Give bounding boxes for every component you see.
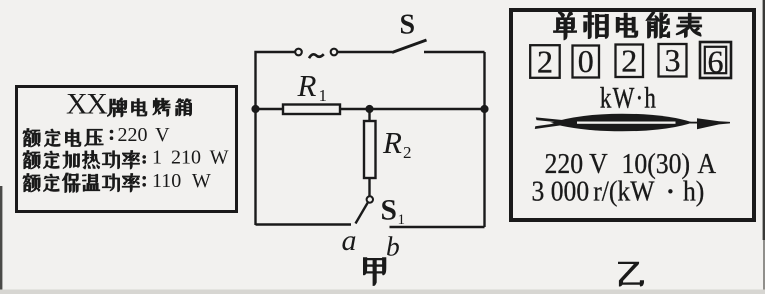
svg-text:0: 0 [578,43,594,79]
svg-text:220 V: 220 V [118,124,171,146]
svg-text:kW·h: kW·h [600,81,657,114]
svg-text:XX: XX [66,88,108,121]
svg-text:2: 2 [621,43,637,79]
svg-text:h): h) [683,175,704,206]
svg-text:1: 1 [398,212,406,228]
svg-text:S: S [381,195,397,227]
svg-text:a: a [342,224,357,257]
svg-text:3 000 r/(kW: 3 000 r/(kW [532,175,656,206]
svg-text:R: R [382,125,402,160]
svg-text:3: 3 [665,42,681,78]
svg-text:2: 2 [403,143,412,162]
svg-text:R: R [297,68,317,103]
svg-text:b: b [386,231,400,262]
svg-text:1: 1 [319,86,328,105]
svg-text:2: 2 [537,43,553,79]
svg-text:6: 6 [708,44,724,80]
svg-text:S: S [400,10,416,41]
